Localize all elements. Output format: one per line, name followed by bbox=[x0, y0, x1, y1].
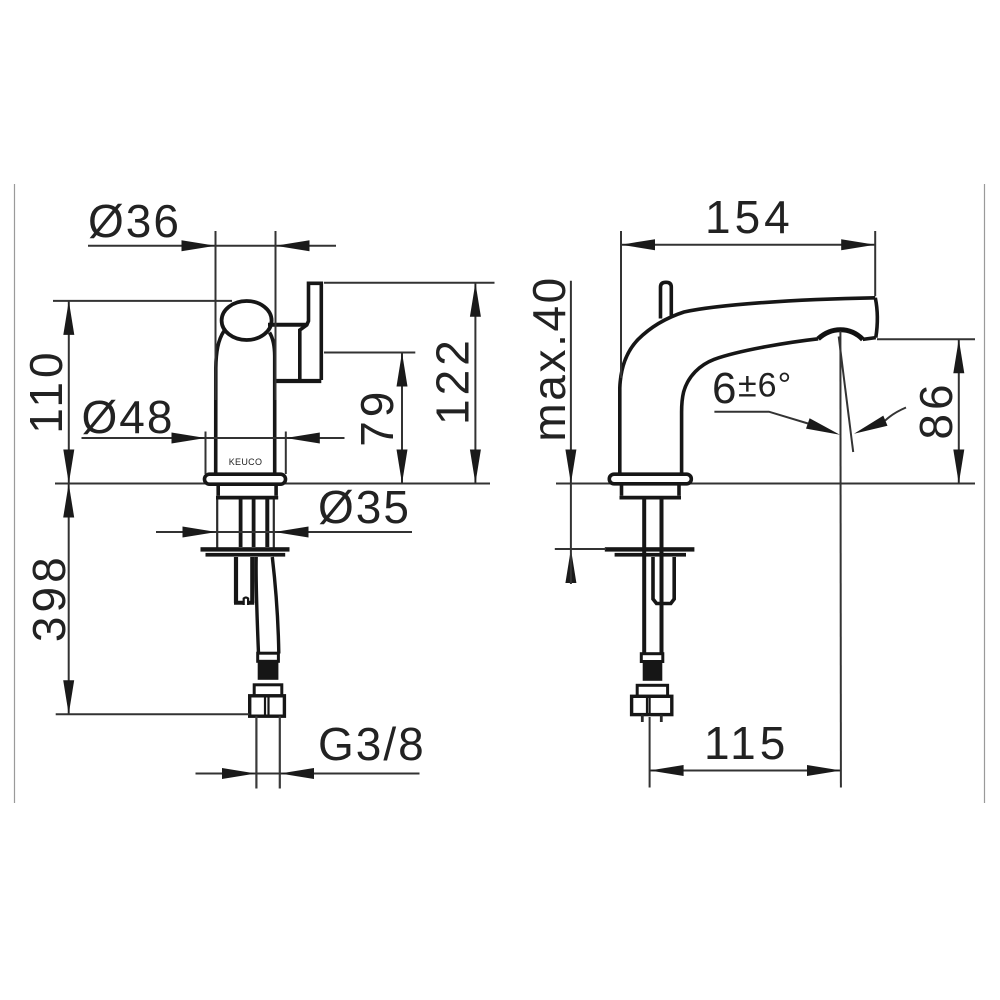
hose lower bbox=[256, 557, 258, 654]
lever pin bbox=[661, 282, 672, 318]
shank bbox=[218, 484, 276, 496]
svg-text:Ø48: Ø48 bbox=[82, 391, 175, 443]
side tube bbox=[642, 497, 646, 654]
side hose collar bbox=[641, 654, 663, 662]
spout underside / inner curve bbox=[682, 339, 819, 475]
wide collar bbox=[254, 685, 282, 696]
flange bar 1 bbox=[201, 547, 290, 551]
svg-text:Ø35: Ø35 bbox=[318, 481, 411, 533]
hose upper edge bbox=[265, 497, 269, 547]
handle plate bbox=[300, 283, 322, 380]
svg-text:115: 115 bbox=[704, 717, 789, 769]
frame bbox=[14, 184, 16, 803]
hex nut bbox=[250, 696, 285, 716]
crimp band bbox=[258, 661, 279, 680]
svg-text:122: 122 bbox=[427, 336, 479, 425]
stream slant line bbox=[839, 337, 854, 453]
side crimp band bbox=[643, 662, 663, 681]
deck reference line bbox=[55, 483, 490, 485]
svg-text:86: 86 bbox=[910, 380, 962, 439]
svg-text:398: 398 bbox=[23, 553, 75, 642]
handle bottom line bbox=[276, 379, 321, 383]
side flange bar 1 bbox=[605, 547, 695, 551]
side flange bar 2 bbox=[615, 553, 686, 557]
dim 79 bbox=[324, 352, 415, 354]
side stub bbox=[641, 715, 644, 722]
side base ring bbox=[609, 474, 691, 484]
svg-text:max.40: max.40 bbox=[523, 275, 575, 441]
svg-text:6: 6 bbox=[712, 364, 737, 413]
handle connector line bbox=[268, 323, 307, 327]
svg-text:G3/8: G3/8 bbox=[318, 718, 426, 770]
svg-text:79: 79 bbox=[351, 388, 403, 447]
svg-text:Ø36: Ø36 bbox=[88, 195, 181, 247]
spout underside right bbox=[863, 338, 876, 340]
hose collar bbox=[258, 653, 279, 661]
svg-text:KEUCO: KEUCO bbox=[229, 457, 263, 467]
svg-text:154: 154 bbox=[705, 191, 794, 243]
body left wall bbox=[216, 331, 224, 475]
threaded rod upper bbox=[239, 497, 243, 547]
svg-text:110: 110 bbox=[20, 348, 72, 433]
tail pipe bbox=[255, 716, 257, 788]
rod slot bbox=[243, 596, 248, 605]
dim 398 bbox=[68, 484, 70, 715]
cartridge sleeve bbox=[653, 557, 674, 604]
base ring bbox=[205, 474, 286, 484]
svg-text:±6°: ±6° bbox=[738, 367, 792, 405]
ball top ellipse bbox=[222, 301, 272, 340]
dim 86 bbox=[877, 338, 975, 340]
side wide collar bbox=[637, 685, 667, 696]
Ø35 tube walls bbox=[216, 500, 218, 548]
flange bar 2 bbox=[206, 553, 286, 557]
dim Ø36 extension lines bbox=[215, 231, 217, 400]
axis extension below stub bbox=[649, 717, 651, 788]
dim 110 bbox=[53, 300, 232, 302]
dim 122 bbox=[324, 282, 495, 284]
body right wall bbox=[270, 333, 275, 475]
stream axis line bbox=[839, 331, 842, 788]
side shank bbox=[622, 484, 680, 496]
angle arc arrow bbox=[885, 408, 906, 421]
spout outer outline bbox=[620, 298, 876, 475]
dim Ø36 line bbox=[88, 245, 336, 247]
angle leader bbox=[714, 412, 808, 424]
side hex nut bbox=[632, 696, 672, 714]
threaded rod lower bbox=[234, 557, 238, 603]
spout right edge bbox=[875, 298, 877, 338]
aerator dome bbox=[818, 330, 863, 340]
